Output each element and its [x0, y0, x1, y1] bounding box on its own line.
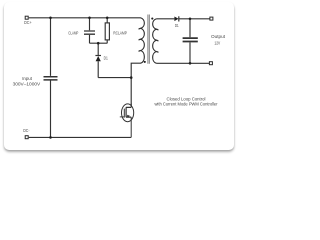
svg-text:Output: Output [211, 34, 226, 39]
svg-text:DC-: DC- [23, 128, 30, 133]
svg-text:RCLAMP: RCLAMP [113, 30, 127, 35]
svg-text:300V–1000V: 300V–1000V [13, 82, 41, 87]
svg-text:D1: D1 [175, 23, 179, 28]
svg-text:DC+: DC+ [24, 20, 32, 25]
svg-text:with Current Mode PWM Controll: with Current Mode PWM Controller [155, 101, 218, 106]
svg-text:CLAMP: CLAMP [68, 31, 78, 36]
svg-text:12V: 12V [214, 40, 220, 45]
svg-text:Input: Input [22, 76, 32, 81]
svg-text:D1: D1 [104, 55, 109, 60]
